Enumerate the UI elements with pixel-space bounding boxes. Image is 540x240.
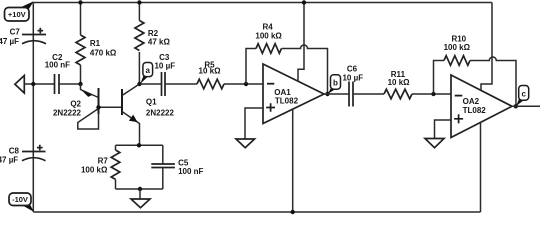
svg-text:47 µF: 47 µF <box>0 156 18 165</box>
-10V power label <box>9 193 34 212</box>
capacitor C7 <box>0 27 46 46</box>
junction input/bus <box>31 82 35 86</box>
svg-text:10 µF: 10 µF <box>342 74 363 83</box>
junction R1 rail <box>78 0 82 4</box>
op-amp OA2 <box>451 75 512 138</box>
svg-text:TL082: TL082 <box>275 97 299 106</box>
svg-text:Q2: Q2 <box>70 99 81 108</box>
wire OA1 V- supply <box>292 109 294 212</box>
transistor Q1 <box>122 84 174 145</box>
wire C6 to R11 <box>353 93 384 95</box>
wire node a to C3 <box>140 83 162 85</box>
wire ground stub <box>139 189 141 199</box>
resistor R1 <box>76 3 117 85</box>
svg-text:OA1: OA1 <box>274 88 291 97</box>
svg-text:c: c <box>521 90 526 99</box>
wire input to C2 <box>24 83 54 85</box>
svg-text:-10V: -10V <box>12 195 28 204</box>
wire R7/C5 top connect <box>116 144 163 146</box>
svg-text:100 nF: 100 nF <box>178 167 203 176</box>
junction OA1 V+ rail <box>302 0 306 4</box>
wire C3 to R5 <box>165 83 197 85</box>
wire OA1 plus input to ground <box>245 108 263 139</box>
svg-text:2N2222: 2N2222 <box>146 108 175 117</box>
svg-text:R1: R1 <box>90 39 101 48</box>
+10V power label <box>5 1 34 21</box>
svg-text:a: a <box>145 66 150 75</box>
wire top +10V rail <box>33 2 492 4</box>
node b <box>325 75 340 97</box>
wire R5 to OA1 inverting input <box>224 83 263 85</box>
node a <box>137 63 152 87</box>
svg-text:100 nF: 100 nF <box>45 61 70 70</box>
wire OA2 V- supply <box>480 122 482 212</box>
svg-text:C3: C3 <box>159 53 170 62</box>
node c <box>514 86 529 109</box>
junction OA1 minus / R4 <box>244 82 248 86</box>
ground OA1 <box>236 139 255 148</box>
svg-text:10 kΩ: 10 kΩ <box>388 78 411 87</box>
resistor R11 <box>384 70 412 99</box>
input port arrow <box>15 76 24 94</box>
junction OA2 minus / R10 <box>431 92 435 96</box>
svg-text:R7: R7 <box>98 156 109 165</box>
wire Q2 base to Q1 base <box>99 106 123 108</box>
svg-text:b: b <box>333 78 338 87</box>
svg-text:470 kΩ: 470 kΩ <box>90 49 117 58</box>
svg-text:+10V: +10V <box>8 10 26 19</box>
svg-text:OA2: OA2 <box>463 97 480 106</box>
wire R7/C5 bottom connect <box>116 188 163 190</box>
capacitor C8 <box>0 145 46 165</box>
resistor R7 <box>81 145 120 189</box>
wire R11 to OA2 inverting input <box>412 93 451 95</box>
resistor R4 feedback <box>246 23 328 94</box>
junction Q2 base <box>96 105 100 109</box>
svg-text:10 kΩ: 10 kΩ <box>199 67 222 76</box>
wire C2 to Q2 node <box>59 83 81 85</box>
capacitor C3 <box>154 53 175 96</box>
junction OA1 V- rail <box>291 210 295 214</box>
ground R7/C5 <box>131 199 150 208</box>
svg-text:47 kΩ: 47 kΩ <box>148 38 171 47</box>
wire OA2 plus input to ground <box>435 120 452 139</box>
capacitor C6 <box>342 64 363 106</box>
wire bottom -10V rail <box>33 211 480 213</box>
svg-text:10 µF: 10 µF <box>154 62 175 71</box>
wire OA2 V+ supply <box>481 3 492 91</box>
transistor Q2 <box>53 84 99 129</box>
junction R7C5 bottom <box>138 187 142 191</box>
wire OA1 output to C6 <box>324 93 349 95</box>
ground OA2 <box>425 139 444 148</box>
svg-text:100 kΩ: 100 kΩ <box>444 43 471 52</box>
svg-text:Q1: Q1 <box>146 98 157 107</box>
svg-text:100 kΩ: 100 kΩ <box>81 166 108 175</box>
capacitor C5 <box>151 145 203 189</box>
svg-text:R2: R2 <box>148 29 159 38</box>
wire OA1 V+ supply <box>298 3 304 82</box>
resistor R5 <box>197 61 224 89</box>
svg-text:TL082: TL082 <box>463 106 487 115</box>
svg-text:2N2222: 2N2222 <box>53 108 82 117</box>
resistor R2 <box>135 3 171 85</box>
svg-text:100 kΩ: 100 kΩ <box>255 32 282 41</box>
svg-text:47 µF: 47 µF <box>0 37 19 46</box>
junction R1/C2/Q2 <box>78 82 82 86</box>
svg-text:C7: C7 <box>10 27 21 36</box>
wire OA2 output <box>512 105 540 107</box>
svg-text:C6: C6 <box>347 64 358 73</box>
op-amp OA1 <box>263 64 324 124</box>
svg-text:R4: R4 <box>262 23 273 32</box>
wire left bus (+10V rail down to -10V corner) <box>32 3 34 213</box>
capacitor C2 <box>45 53 70 94</box>
junction R2 rail <box>137 0 141 4</box>
junction Q1 emitter / R7C5 <box>137 143 141 147</box>
resistor R10 feedback <box>434 35 517 107</box>
svg-text:C8: C8 <box>9 147 20 156</box>
